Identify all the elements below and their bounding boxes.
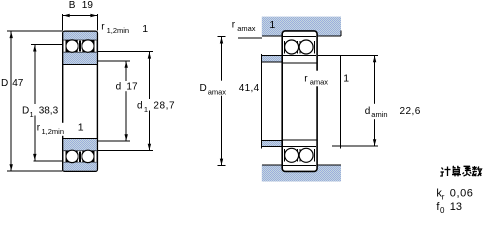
svg-text:1: 1 xyxy=(78,122,84,134)
svg-text:amin: amin xyxy=(371,110,387,119)
svg-text:r: r xyxy=(442,193,445,202)
svg-text:D: D xyxy=(200,83,207,94)
svg-text:1: 1 xyxy=(30,110,34,119)
svg-text:1: 1 xyxy=(144,105,148,114)
svg-text:D: D xyxy=(1,78,8,89)
svg-text:amax: amax xyxy=(237,24,256,33)
svg-text:D: D xyxy=(22,106,29,117)
svg-text:19: 19 xyxy=(82,0,94,11)
svg-text:22,6: 22,6 xyxy=(400,106,421,117)
svg-text:17: 17 xyxy=(126,81,138,92)
svg-text:1,2min: 1,2min xyxy=(107,26,130,35)
svg-text:d: d xyxy=(116,81,122,92)
svg-text:13: 13 xyxy=(450,201,462,213)
svg-text:1: 1 xyxy=(269,19,275,31)
svg-text:d: d xyxy=(137,101,143,112)
svg-text:amax: amax xyxy=(208,87,227,96)
svg-text:0: 0 xyxy=(440,206,445,215)
svg-text:0,06: 0,06 xyxy=(450,188,474,200)
svg-text:d: d xyxy=(365,106,371,117)
svg-text:1: 1 xyxy=(343,72,349,84)
svg-text:41,4: 41,4 xyxy=(239,83,260,94)
svg-text:amax: amax xyxy=(310,78,329,87)
svg-text:B: B xyxy=(69,0,76,11)
svg-text:1: 1 xyxy=(142,23,148,35)
svg-text:1,2min: 1,2min xyxy=(42,127,65,136)
svg-text:28,7: 28,7 xyxy=(153,101,175,112)
svg-text:38,3: 38,3 xyxy=(39,106,59,117)
svg-text:47: 47 xyxy=(12,78,24,89)
